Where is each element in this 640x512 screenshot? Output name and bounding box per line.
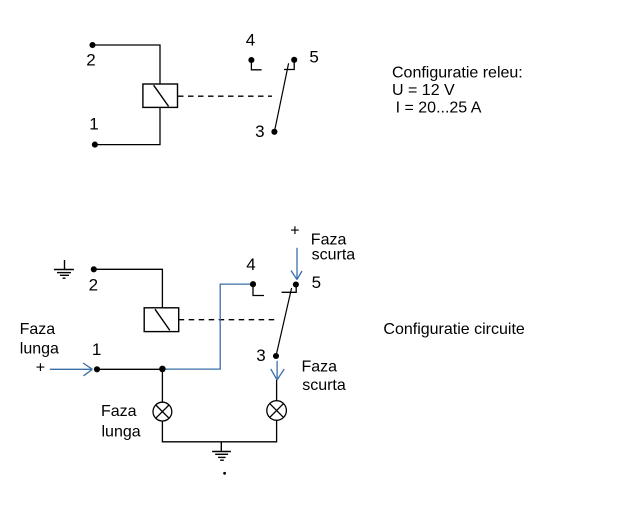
relay coil K1 (top) [143,84,178,107]
dashed actuation link (bottom) [179,319,275,321]
svg-text:+: + [36,360,45,377]
svg-text:3: 3 [255,122,264,141]
svg-text:scurta: scurta [302,377,346,394]
svg-text:Faza: Faza [20,321,56,338]
svg-text:5: 5 [309,47,318,66]
svg-text:1: 1 [89,115,98,134]
wire arrow tip down to right lamp [276,380,278,401]
svg-text:I = 20...25 A: I = 20...25 A [396,100,482,117]
dashed actuation link (top) [178,95,272,97]
svg-text:Configuratie releu:: Configuratie releu: [392,64,523,81]
node 3 (top) [271,129,277,135]
wire pin1 to coil bottom [95,107,160,144]
svg-text:4: 4 [246,31,255,50]
blue feed arrow into pin 5 [291,248,302,280]
switch arm (top) pin3 to pin5 [274,63,288,132]
wire pin1 to junction [97,368,162,370]
svg-text:lunga: lunga [102,424,141,441]
label Faza scurta (at pin 3 arrow) [302,358,346,394]
node 2 (bottom) [91,266,97,272]
relay spec text [392,64,523,116]
svg-text:5: 5 [312,273,321,292]
contact pin 5 (bottom): dot and hook [282,281,299,292]
svg-text:2: 2 [89,276,98,295]
svg-text:Faza: Faza [101,403,137,420]
stray period mark [223,472,226,475]
svg-text:2: 2 [86,51,95,70]
label Faza lunga (at lamp) [101,403,141,441]
label Faza scurta (top right) [311,231,355,263]
wire junction down to lamp [161,369,163,402]
relay coil K1 (bottom) [144,308,179,332]
blue arrow pin3 to lamp [271,361,284,380]
junction node [159,366,166,373]
wire pin2 to coil top (bottom diagram) [94,269,163,308]
contact pin 5 (top): dot and hook [284,57,297,70]
node 1 (top) [92,142,98,148]
ground (chassis) top-left [54,260,74,278]
bottom wire both lamps [162,420,276,442]
blue feed arrow into pin 1 [50,363,93,376]
ground (chassis) bottom [212,442,231,460]
contact pin 4 (top): dot and hook [248,57,261,70]
svg-text:Configuratie circuite: Configuratie circuite [383,321,525,338]
svg-text:+: + [290,222,299,239]
svg-text:U = 12 V: U = 12 V [392,82,455,99]
svg-text:4: 4 [246,255,255,274]
contact pin 4 (bottom): dot and hook [250,281,264,295]
blue wire junction to pin 4 [162,284,250,369]
svg-text:scurta: scurta [312,246,356,263]
wire pin2 to coil top [93,45,161,84]
label Faza lunga (left feed) [20,321,59,358]
svg-text:3: 3 [256,346,265,365]
svg-text:Faza: Faza [302,358,338,375]
node 1 (bottom) [94,366,100,372]
lamp faza lunga (circle with X) [153,402,172,421]
lamp faza scurta (circle with X) [267,401,287,421]
switch arm (bottom) pin3 to pin5 [276,288,292,356]
svg-text:lunga: lunga [20,341,59,358]
node 3 (bottom) [273,353,279,359]
node 2 (top) [89,42,95,48]
svg-text:1: 1 [92,340,101,359]
